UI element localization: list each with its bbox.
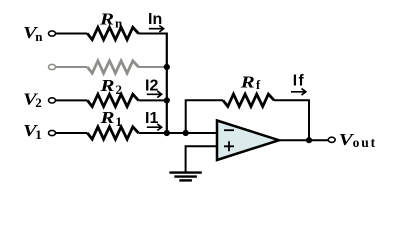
svg-text:R: R (99, 108, 114, 127)
label V2 (23, 89, 42, 110)
wire R2 to bus (139, 99, 167, 101)
wire feedback riser (186, 100, 223, 133)
label R2 (99, 76, 122, 97)
terminal Vout (328, 137, 335, 142)
label Vout (339, 130, 377, 150)
current label In (148, 11, 162, 28)
bus wire vertical (166, 33, 168, 134)
junction V2 row (164, 97, 170, 103)
current arrow In (149, 25, 164, 32)
label V1 (23, 121, 42, 142)
label Rf (240, 72, 261, 92)
current arrow If (291, 89, 306, 96)
current label If (293, 73, 305, 90)
svg-text:If: If (293, 73, 305, 90)
wire Vn to Rn (56, 33, 88, 35)
ground (169, 173, 201, 181)
resistor gray (ellipsis input) (87, 61, 138, 73)
svg-text:1: 1 (116, 114, 123, 129)
wire op-amp output (279, 139, 328, 141)
current arrow I2 (147, 91, 162, 98)
svg-text:out: out (353, 135, 377, 150)
terminal Vn (49, 31, 56, 36)
junction V1 row (164, 130, 170, 136)
wire non-inverting input (186, 146, 217, 171)
junction gray row (164, 64, 170, 70)
resistor Rn (87, 27, 138, 39)
label Rn (99, 10, 123, 31)
resistor R2 (87, 94, 138, 106)
wire V2 to R2 (56, 99, 88, 101)
svg-text:R: R (99, 10, 114, 29)
svg-text:I2: I2 (145, 78, 158, 95)
terminal V1 (49, 130, 56, 135)
wire Rf to output drop (274, 100, 309, 140)
svg-text:n: n (35, 29, 43, 44)
junction output node (306, 137, 312, 143)
wire gray to resistor (56, 66, 88, 68)
svg-text:R: R (240, 72, 255, 91)
label Vn (23, 23, 43, 44)
op-amp minus sign (224, 129, 234, 131)
terminal gray input (49, 64, 56, 69)
wire Rn to bus corner (139, 33, 167, 35)
current arrow I1 (147, 124, 162, 131)
svg-text:R: R (99, 76, 114, 95)
svg-text:n: n (115, 15, 123, 30)
svg-text:2: 2 (116, 82, 123, 97)
current label I1 (145, 110, 158, 127)
svg-text:f: f (256, 78, 261, 92)
op-amp plus sign (224, 141, 234, 151)
junction feedback tap (183, 130, 189, 136)
op-amp U1 (217, 121, 279, 161)
resistor Rf (223, 94, 274, 106)
svg-text:1: 1 (35, 127, 42, 142)
label R1 (99, 108, 122, 129)
resistor R1 (87, 127, 138, 139)
wire gray resistor to bus (139, 66, 167, 68)
svg-text:2: 2 (35, 95, 42, 110)
wire V1 to R1 (56, 132, 88, 134)
current label I2 (145, 78, 158, 95)
wire R1 to op-amp inverting input (139, 132, 218, 134)
terminal V2 (49, 98, 56, 103)
svg-text:I1: I1 (145, 110, 158, 127)
